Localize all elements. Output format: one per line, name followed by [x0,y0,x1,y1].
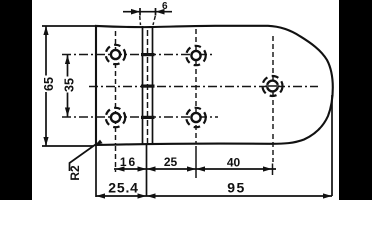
svg-text:40: 40 [227,156,241,170]
svg-text:R2: R2 [68,165,82,181]
svg-text:65: 65 [42,77,56,91]
svg-text:35: 35 [63,78,77,92]
svg-text:95: 95 [227,180,246,196]
svg-text:6: 6 [162,1,168,12]
svg-text:16: 16 [120,155,137,169]
svg-text:25: 25 [164,155,178,169]
svg-text:25.4: 25.4 [108,180,138,196]
